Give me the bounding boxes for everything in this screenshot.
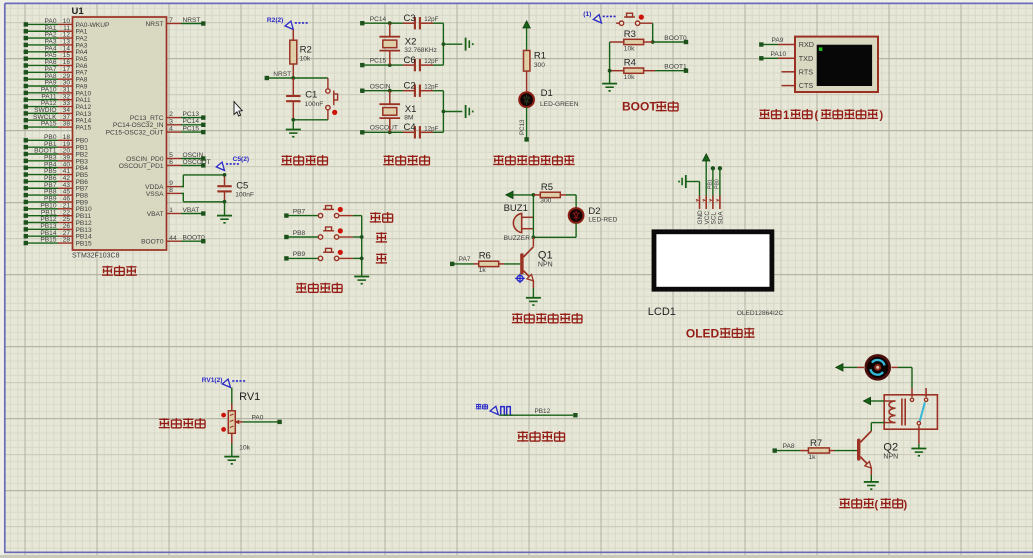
LCD1 OLED screen body [654, 232, 772, 289]
resistor R4 10k [610, 58, 655, 82]
signal generator 水流 probe [476, 404, 513, 415]
svg-text:C1: C1 [305, 90, 317, 101]
pin PA2 wire (pin 12) [24, 32, 88, 43]
motor pump icon [857, 356, 898, 380]
capacitor C5 [217, 173, 254, 204]
svg-text:STM32F103C8: STM32F103C8 [72, 252, 120, 259]
caption 水流检测 [517, 431, 564, 442]
svg-text:PB15: PB15 [76, 240, 92, 247]
pin PB8 wire (pin 45) [24, 189, 89, 200]
ground of BOOT circuit [602, 84, 617, 92]
svg-text:12pF: 12pF [424, 84, 438, 91]
svg-text:7: 7 [169, 17, 173, 24]
key button PB7 [284, 206, 362, 218]
chip right pin VBAT (pin 1) [147, 207, 206, 218]
caption 晶振电路 [383, 155, 429, 165]
svg-text:10k: 10k [624, 45, 635, 52]
svg-text:LED-RED: LED-RED [588, 216, 617, 223]
svg-text:10k: 10k [624, 74, 635, 81]
ground (rotated) of OLED [678, 175, 699, 196]
svg-text:C5(2): C5(2) [233, 156, 250, 163]
LCD1 value OLED12864I2C [737, 310, 784, 317]
caption 液位调节 [159, 418, 205, 428]
pin PA15 wire (pin 38) [24, 121, 92, 132]
transistor Q1 NPN [520, 237, 552, 288]
pin PA9 wire (pin 30) [24, 80, 88, 91]
chip right pin PC14-OSC32_IN (pin 3) [113, 118, 206, 129]
power symbol for relay coil [863, 397, 884, 404]
svg-text:8: 8 [169, 187, 173, 194]
resistor R3 10k [610, 29, 653, 53]
svg-text:X1: X1 [405, 104, 417, 115]
svg-text:PC14-OSC32_IN: PC14-OSC32_IN [113, 122, 164, 129]
svg-text:C5: C5 [236, 180, 248, 191]
wire VSSA to C5 bottom node [181, 193, 225, 202]
potentiometer RV1 [221, 388, 260, 452]
svg-text:1: 1 [783, 110, 790, 122]
net stub PB10 to SCL [708, 166, 716, 195]
svg-text:OSCOUT: OSCOUT [370, 125, 398, 132]
svg-text:6: 6 [169, 159, 173, 166]
resistor R1 [524, 51, 547, 93]
pin SWDIO wire (pin 34) [24, 107, 92, 118]
pin PB7 wire (pin 43) [24, 182, 89, 193]
svg-text:SCL: SCL [711, 212, 718, 225]
wire D2 to collector node [532, 223, 577, 239]
pin BOOT1 wire (pin 20) [24, 148, 89, 159]
caption OLED显示屏 [686, 327, 755, 341]
svg-text:PB1: PB1 [708, 179, 714, 189]
node NRST wire [265, 71, 328, 80]
ground of RV1 [224, 444, 239, 465]
ground (rotated) of crystal [466, 38, 474, 51]
capacitor C4 12pF [403, 122, 443, 139]
svg-text:NPN: NPN [883, 453, 898, 460]
svg-text:PC14: PC14 [370, 16, 387, 23]
main MCU U1 body [73, 17, 167, 250]
svg-text:BUZ1: BUZ1 [504, 203, 528, 214]
pin PB10 wire (pin 21) [24, 202, 92, 213]
terminal pin CTS [782, 81, 814, 90]
svg-text:X2: X2 [405, 37, 417, 48]
pin PB0 wire (pin 18) [24, 134, 89, 145]
svg-text:LED-GREEN: LED-GREEN [540, 101, 579, 108]
ground of keys [354, 277, 369, 285]
svg-text:PB12: PB12 [535, 408, 551, 415]
caption 复位电路 [281, 155, 327, 165]
svg-text:CTS: CTS [799, 81, 814, 90]
svg-text:NRST: NRST [183, 17, 201, 24]
pin PB1 wire (pin 19) [24, 141, 89, 152]
svg-text:PB0: PB0 [715, 179, 721, 189]
resistor R6 1k [450, 251, 520, 274]
svg-text:PC15: PC15 [183, 126, 200, 133]
svg-text:1: 1 [169, 207, 173, 214]
crystal X2 [379, 23, 437, 65]
LCD1 reference label [648, 306, 676, 318]
voltage probe R2(2) [267, 17, 308, 29]
resistor R5 300 [533, 182, 576, 205]
pin PA4 wire (pin 14) [24, 45, 88, 56]
wire emitter Q2 to ground [864, 475, 879, 490]
svg-text:4: 4 [169, 126, 173, 133]
terminal pin RXD [759, 37, 814, 49]
svg-text:): ) [904, 499, 908, 511]
svg-text:VBAT: VBAT [183, 207, 200, 214]
svg-text:R6: R6 [479, 251, 491, 262]
svg-text:LCD1: LCD1 [648, 306, 676, 318]
ground (rotated) of crystal [466, 105, 474, 118]
key button PB8 [284, 227, 362, 239]
terminal pin TXD [759, 51, 813, 63]
reset pushbutton [326, 78, 338, 120]
BOOT pushbutton [616, 13, 653, 25]
caption 声光报警电路 [512, 313, 582, 323]
node OSCIN wire [360, 84, 403, 93]
svg-text:R2: R2 [300, 45, 312, 56]
svg-text:32.768KHz: 32.768KHz [404, 47, 437, 54]
relay RL1 body [884, 395, 937, 429]
voltage probe (1) [583, 11, 616, 23]
svg-text:PB7: PB7 [293, 208, 306, 215]
svg-text:(: ( [875, 499, 879, 511]
voltage probe C5(2) [216, 156, 249, 170]
pin PA3 wire (pin 13) [24, 39, 88, 50]
power symbol for R1 [523, 21, 530, 51]
wire VDDA to C5 node [181, 175, 225, 187]
key button PB9 [284, 248, 362, 260]
svg-text:1k: 1k [808, 454, 816, 461]
ground of reset circuit [286, 120, 301, 138]
svg-text:PA7: PA7 [459, 256, 471, 263]
terminal screen [817, 45, 872, 86]
wire D1 to node PC13 [519, 107, 529, 141]
svg-text:PC13_RTC: PC13_RTC [130, 115, 164, 122]
svg-text:): ) [880, 109, 884, 121]
svg-text:Q1: Q1 [538, 250, 553, 262]
caption 独立按键 [296, 282, 342, 292]
svg-text:U1: U1 [72, 6, 85, 17]
svg-text:R5: R5 [541, 182, 553, 193]
svg-text:R4: R4 [624, 58, 636, 69]
chip right pin OSCIN_PD0 (pin 5) [126, 152, 205, 163]
node marker crosshair [515, 274, 525, 284]
svg-text:12pF: 12pF [424, 16, 438, 23]
caption 设置 [370, 212, 393, 223]
svg-text:SDA: SDA [718, 211, 725, 225]
node BOOT1 wire [655, 64, 688, 73]
svg-text:300: 300 [534, 62, 545, 69]
power symbol for motor [836, 364, 857, 371]
pin PB4 wire (pin 40) [24, 161, 89, 172]
svg-text:BOOT0: BOOT0 [183, 235, 206, 242]
node BOOT0 wire [653, 35, 689, 44]
LED D2 LED-RED [569, 206, 618, 223]
buzzer BUZ1 [504, 203, 534, 242]
chip right pin NRST (pin 7) [146, 17, 206, 28]
svg-text:R1: R1 [534, 51, 546, 62]
net stub PB11 to SDA [715, 166, 723, 195]
pin PA1 wire (pin 11) [24, 25, 88, 36]
svg-text:C4: C4 [404, 122, 416, 133]
chip right pin BOOT0 (pin 44) [141, 235, 205, 246]
svg-text:(1): (1) [583, 11, 591, 18]
node OSCOUT wire [360, 125, 403, 135]
capacitor C3 12pF [403, 13, 443, 30]
LED D1 LED-GREEN [519, 88, 579, 108]
svg-text:28: 28 [63, 237, 71, 244]
svg-text:12pF: 12pF [424, 58, 438, 65]
capacitor C1 [286, 78, 323, 120]
svg-text:8M: 8M [404, 115, 413, 122]
pin PA10 wire (pin 31) [24, 86, 92, 97]
crystal X1 [379, 91, 416, 133]
pin SWCLK wire (pin 37) [24, 114, 92, 125]
wire R5 to D2 [575, 195, 577, 208]
svg-text:10k: 10k [300, 56, 311, 63]
power symbol for alarm [506, 191, 536, 198]
svg-text:(: ( [815, 109, 819, 121]
svg-text:D1: D1 [541, 88, 553, 99]
svg-text:PA0: PA0 [252, 415, 264, 422]
pin PB13 wire (pin 26) [24, 223, 92, 234]
svg-text:10k: 10k [239, 445, 251, 452]
svg-text:RV1(2): RV1(2) [202, 377, 223, 384]
mouse cursor [234, 102, 242, 117]
svg-text:NRST: NRST [273, 71, 291, 78]
svg-text:PC13: PC13 [519, 119, 526, 135]
svg-text:Q2: Q2 [883, 441, 898, 453]
svg-text:BOOT1: BOOT1 [664, 64, 687, 71]
caption 继电器(水泵) [839, 498, 907, 511]
svg-text:OLED: OLED [686, 327, 720, 341]
virtual terminal box [795, 37, 878, 92]
svg-text:PB15: PB15 [40, 237, 56, 244]
capacitor C2 12pF [403, 80, 443, 97]
svg-text:NRST: NRST [146, 21, 164, 28]
svg-text:PA8: PA8 [783, 443, 795, 450]
svg-text:BOOT0: BOOT0 [664, 35, 687, 42]
svg-text:OSCOUT: OSCOUT [183, 159, 211, 166]
svg-text:OSCOUT_PD1: OSCOUT_PD1 [119, 163, 164, 170]
wire buzzer rail [532, 195, 534, 237]
svg-text:VBAT: VBAT [147, 211, 164, 218]
svg-text:PC15: PC15 [370, 58, 387, 65]
svg-text:38: 38 [63, 121, 71, 128]
svg-text:TXD: TXD [799, 54, 813, 63]
pin PA5 wire (pin 15) [24, 52, 88, 63]
caption 主芯片 [102, 265, 137, 275]
svg-text:44: 44 [169, 235, 177, 242]
relay contact pins [910, 388, 928, 444]
svg-text:1k: 1k [479, 267, 487, 274]
svg-text:3: 3 [169, 118, 173, 125]
relay coil [884, 399, 905, 426]
caption 加 [376, 232, 387, 243]
svg-text:PC13: PC13 [183, 111, 200, 118]
chip right pin PC13_RTC (pin 2) [130, 111, 206, 122]
svg-text:RTS: RTS [799, 67, 813, 76]
svg-text:RXD: RXD [799, 40, 814, 49]
wire coil to Q2 collector [871, 423, 884, 431]
chip right pin VDDA (pin 9) [145, 180, 181, 191]
caption 减 [376, 253, 387, 264]
svg-text:R7: R7 [810, 438, 822, 449]
svg-text:NPN: NPN [538, 261, 553, 268]
U1 reference label [72, 6, 85, 17]
ground of relay contact [911, 444, 926, 457]
pin PB12 wire (pin 25) [24, 216, 92, 227]
chip right pin PC15-OSC32_OUT (pin 4) [106, 126, 206, 137]
svg-text:OLED12864I2C: OLED12864I2C [737, 310, 784, 317]
svg-text:PA10: PA10 [771, 51, 787, 58]
U1 value STM32F103C8 [72, 252, 120, 259]
svg-text:PB8: PB8 [293, 230, 306, 237]
resistor R2 [290, 30, 312, 79]
wire motor to relay contact [898, 367, 912, 388]
wire button to BOOT0 net [651, 23, 655, 44]
svg-text:R3: R3 [624, 29, 636, 40]
svg-text:BOOT0: BOOT0 [141, 239, 164, 246]
svg-text:C6: C6 [404, 55, 416, 66]
caption BOOT电路 [622, 100, 678, 114]
node PC14 wire [360, 16, 403, 25]
pin PB3 wire (pin 39) [24, 154, 89, 165]
pin PA12 wire (pin 33) [24, 100, 92, 111]
svg-text:OSCIN: OSCIN [370, 84, 391, 91]
pin PA0 wire (pin 10) [24, 18, 110, 29]
svg-text:R2(2): R2(2) [267, 17, 284, 24]
svg-text:PA15: PA15 [76, 124, 92, 131]
wire right rail to ground [442, 23, 463, 65]
wire left rail R3-R4 [608, 42, 612, 83]
svg-text:PC15-OSC32_OUT: PC15-OSC32_OUT [106, 130, 164, 137]
svg-text:PA15: PA15 [41, 121, 57, 128]
svg-text:VSSA: VSSA [146, 191, 164, 198]
wire emitter to ground [526, 288, 541, 306]
chip right pin VSSA (pin 8) [146, 187, 181, 198]
transistor Q2 NPN [857, 431, 898, 475]
pin PA6 wire (pin 16) [24, 59, 88, 70]
svg-text:C2: C2 [404, 80, 416, 91]
pin PB6 wire (pin 42) [24, 175, 89, 186]
svg-text:PA9: PA9 [772, 37, 784, 44]
voltage probe RV1(2) [202, 377, 246, 388]
svg-text:100nF: 100nF [305, 101, 324, 108]
svg-text:C3: C3 [404, 13, 416, 24]
node PB12 wire [499, 408, 577, 417]
pin PB11 wire (pin 22) [24, 209, 92, 220]
wire buttons common rail [360, 216, 364, 277]
caption 程序运行指示灯 [493, 155, 574, 165]
svg-text:300: 300 [540, 197, 551, 204]
svg-text:12pF: 12pF [424, 125, 438, 132]
svg-text:100nF: 100nF [235, 192, 254, 199]
ground below C5 [217, 202, 232, 224]
pin PB9 wire (pin 46) [24, 196, 89, 207]
OLED pin headers [696, 196, 724, 225]
pin PB5 wire (pin 41) [24, 168, 89, 179]
node PA0 wire [243, 415, 282, 425]
svg-text:2: 2 [169, 111, 173, 118]
pin PA7 wire (pin 17) [24, 66, 88, 77]
svg-text:PC14: PC14 [183, 118, 200, 125]
svg-text:BUZZER: BUZZER [504, 235, 531, 242]
svg-text:PB9: PB9 [293, 251, 306, 258]
node PC15 wire [360, 58, 403, 68]
wire C1 to button bottom [291, 118, 328, 122]
pin PA11 wire (pin 32) [24, 93, 91, 104]
pin PA8 wire (pin 29) [24, 73, 88, 84]
wire right rail to ground [442, 91, 463, 133]
capacitor C6 12pF [403, 55, 443, 72]
resistor R7 1k [773, 438, 858, 461]
caption 串口1窗口（模拟手机端） [759, 109, 883, 122]
pin PB14 wire (pin 27) [24, 230, 92, 241]
terminal pin RTS [782, 67, 814, 76]
svg-text:RV1: RV1 [239, 391, 260, 403]
svg-text:BOOT: BOOT [622, 100, 657, 114]
pin PB15 wire (pin 28) [24, 237, 92, 248]
power symbol for OLED VCC [703, 154, 710, 196]
chip right pin OSCOUT_PD1 (pin 6) [119, 159, 211, 170]
